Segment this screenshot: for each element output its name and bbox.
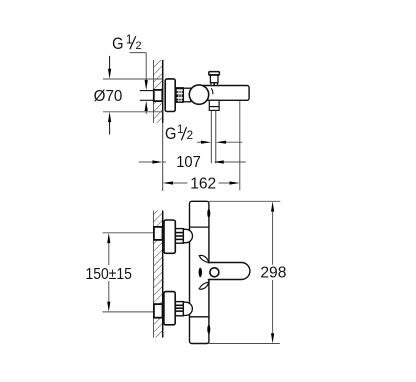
lever handle (front view) xyxy=(208,263,250,280)
svg-text:Ø70: Ø70 xyxy=(94,88,123,105)
dimension 162 extension line at spout tip xyxy=(239,101,241,190)
union nut (side view, striped) xyxy=(176,88,183,103)
crescent highlight top xyxy=(207,209,210,218)
thermostat handle circle (side view) xyxy=(189,85,208,104)
wall (top view) hatched band xyxy=(153,60,162,123)
body cap line xyxy=(190,226,209,228)
through-wall square fitting xyxy=(154,90,163,101)
dimension Ø70 extension lines xyxy=(103,78,163,80)
upper leaf of lever base xyxy=(199,255,209,262)
upper union nut xyxy=(175,229,183,244)
svg-text:2: 2 xyxy=(136,40,142,52)
svg-text:2: 2 xyxy=(187,129,193,142)
inlet pipe (through wall) xyxy=(140,91,154,101)
svg-text:G: G xyxy=(112,35,123,53)
svg-text:162: 162 xyxy=(190,175,216,192)
svg-text:298: 298 xyxy=(260,264,286,281)
svg-text:150±15: 150±15 xyxy=(86,265,132,283)
diverter knob on top xyxy=(209,72,220,86)
wall surface extension line below wall xyxy=(162,123,164,191)
outlet extension lines (thin tube) xyxy=(210,110,212,163)
lower escutcheon xyxy=(164,292,175,325)
svg-text:G: G xyxy=(165,125,176,143)
lower union dome xyxy=(183,302,192,315)
black marker on body xyxy=(199,268,202,278)
button circle on lever xyxy=(210,268,219,277)
svg-text:107: 107 xyxy=(176,154,201,172)
dimension 162 xyxy=(163,175,240,192)
svg-text:1: 1 xyxy=(177,124,183,136)
dimension 150±15 xyxy=(86,233,132,312)
upper union dome xyxy=(183,229,192,242)
label G 1/2 (inlet, top) xyxy=(112,32,142,53)
aerator outlet under body xyxy=(209,100,219,110)
curvature tick on body xyxy=(211,88,213,94)
crescent highlight bottom xyxy=(207,325,210,334)
escutcheon (side view) xyxy=(165,79,175,112)
leader G1/2 top with arrows at inlet pipe xyxy=(130,53,148,114)
dimension Ø70 arrows xyxy=(108,56,111,135)
upper escutcheon xyxy=(164,220,175,253)
dimension 298 xyxy=(260,201,286,343)
dimension 150±15 extension lines xyxy=(103,232,155,234)
lower through-wall square xyxy=(154,304,163,318)
label G 1/2 (outlet, bottom) xyxy=(165,124,193,144)
lower leaf of lever base xyxy=(199,282,209,289)
lower union nut xyxy=(175,302,183,316)
connector cylinder xyxy=(183,88,190,102)
dimension 107 xyxy=(139,154,246,172)
main body column xyxy=(190,201,209,343)
upper through-wall square xyxy=(154,227,163,240)
dimension 298 extension lines xyxy=(209,200,281,202)
dimension G1/2 outlet arrows xyxy=(197,141,242,144)
wall strip xyxy=(154,211,163,338)
valve body / spout (side view) xyxy=(196,86,249,101)
body bottom line xyxy=(190,316,209,318)
